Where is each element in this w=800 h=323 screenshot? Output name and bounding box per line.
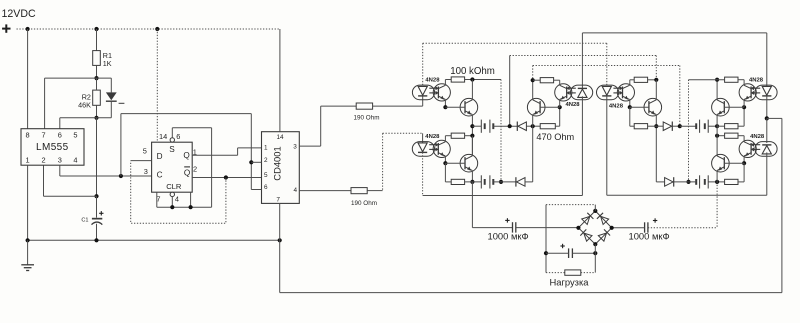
wire CD4001 pin3 stub <box>299 145 320 147</box>
wire Q2 base lead <box>540 106 560 108</box>
resistor R16 load <box>565 270 581 275</box>
wire GB2 to D3 <box>493 181 516 183</box>
junction Q5 emitter node <box>715 124 719 128</box>
junction Q1 base node <box>443 105 447 109</box>
wire U9 collector riser <box>743 80 745 86</box>
pin 6 label <box>58 130 62 139</box>
wire R4 riser <box>382 133 384 190</box>
svg-text:4: 4 <box>73 155 77 164</box>
transistor Q4 <box>644 98 662 116</box>
junction clr junction pin4 <box>170 205 174 209</box>
wire ground rail <box>28 239 280 241</box>
wire Q1 collector lead <box>471 80 473 100</box>
label 4N28 U8 <box>609 103 624 109</box>
wire LM555 pin6 to R2/D1 <box>60 117 112 119</box>
junction bridge left node <box>576 226 580 230</box>
svg-text:5: 5 <box>73 130 77 139</box>
wire R11 to D4 <box>648 125 664 127</box>
wire Q3 collector lead <box>471 136 473 156</box>
label 4N28 U5 <box>425 134 440 140</box>
wire FF D input <box>131 160 152 162</box>
junction bridge bottom node <box>593 242 597 246</box>
junction mid row node B <box>678 124 682 128</box>
wire Q6 emitter lead <box>716 171 718 182</box>
wire U8 emitter drop <box>629 100 631 108</box>
junction R8 node <box>470 134 474 138</box>
wire Q3 base res link <box>445 181 451 183</box>
battery GB1 <box>481 120 493 133</box>
svg-text:5: 5 <box>264 172 268 179</box>
wire D4 to node B <box>672 125 680 127</box>
svg-text:8: 8 <box>26 130 30 139</box>
svg-text:LM555: LM555 <box>36 142 69 153</box>
pin 1 label FF <box>193 148 197 157</box>
label LM555 <box>36 142 69 153</box>
svg-text:5: 5 <box>143 147 147 156</box>
wire Q5 collector lead <box>716 80 718 100</box>
resistor R4 190 Ohm <box>351 188 367 194</box>
resistor R8 100k <box>451 133 464 138</box>
battery GB4 <box>696 175 708 188</box>
wire LM555 pin2 link <box>44 195 97 197</box>
label CD4001 <box>272 146 283 180</box>
wire clock riser <box>120 114 122 176</box>
wire CD4001 pin7 to ground rail <box>279 203 281 240</box>
svg-text:7: 7 <box>41 130 45 139</box>
wire Q6 base drop <box>743 163 745 182</box>
svg-text:Q: Q <box>183 151 189 160</box>
wire U9 emitter drop <box>743 100 745 108</box>
wire CD4001 pin14 supply <box>279 29 281 132</box>
resistor R3 190 Ohm <box>356 103 372 109</box>
wire LED chain top outer <box>582 32 766 34</box>
wire R13 left link <box>689 79 725 81</box>
pin 1 label <box>26 155 30 164</box>
flip-flop U2 body <box>152 142 193 192</box>
optocoupler U6 <box>555 84 593 101</box>
pin 1 label CD4001 <box>264 145 268 152</box>
junction mid row node A <box>508 124 512 128</box>
diode D3 <box>516 177 525 186</box>
svg-text:3: 3 <box>58 155 62 164</box>
wire load bottom left <box>546 272 565 274</box>
wire CD4001 pin4 stub <box>299 190 351 192</box>
pin 3 label <box>58 155 62 164</box>
junction R14 node <box>715 134 719 138</box>
junction load cap left node <box>544 251 548 255</box>
bridge diode D7 <box>597 213 609 225</box>
wire FF pin6 top link <box>172 127 211 129</box>
label R2 value 46K <box>78 101 91 110</box>
diode D4 <box>663 122 672 131</box>
wire U6 LED cathode riser <box>581 33 583 89</box>
wire U6 LED anode drop <box>581 96 583 195</box>
FF clear bubble <box>170 192 174 196</box>
wire right LED return <box>607 194 767 196</box>
label 4N28 U9 <box>749 77 764 83</box>
wire U9 LED cathode drop <box>766 96 768 119</box>
wire C1 top lead <box>96 196 98 217</box>
wire pin3 riser <box>320 106 322 146</box>
wire Q jog riser <box>237 148 239 155</box>
bridge diode D8 <box>580 229 592 241</box>
wire C2 to bridge left <box>516 227 579 229</box>
wire drive cross link A <box>510 55 657 57</box>
FF set bubble <box>170 138 174 142</box>
wire D5 to Q4 column <box>656 181 664 183</box>
svg-text:3: 3 <box>293 143 297 150</box>
svg-text:190 Ohm: 190 Ohm <box>354 115 380 122</box>
junction ground rail right <box>278 238 282 242</box>
wire bridge bottom drop <box>594 244 596 272</box>
resistor R10 100k <box>634 77 647 82</box>
wire R2 bottom lead <box>96 105 98 118</box>
svg-text:6: 6 <box>176 132 180 141</box>
svg-text:4N28: 4N28 <box>425 134 440 140</box>
junction Q6 base node <box>742 161 746 165</box>
label C4 plus <box>560 244 564 248</box>
transistor Q2 <box>527 98 545 116</box>
label load <box>549 276 589 287</box>
power + terminal <box>2 24 10 32</box>
junction clock branch junction <box>119 174 123 178</box>
resistor R14 100k <box>725 133 738 138</box>
junction Q2 collector node <box>531 78 535 82</box>
wire R2 top lead <box>96 78 98 90</box>
wire bridge top stub <box>594 205 596 211</box>
wire cap left lead <box>546 252 569 254</box>
wire Q2 coll to R7 <box>533 79 541 81</box>
wire U5 emitter drop <box>444 156 446 163</box>
svg-text:100 kOhm: 100 kOhm <box>450 66 495 77</box>
wire Q4 emitter lead <box>655 115 657 182</box>
wire R4 lead <box>367 190 382 192</box>
optocoupler U8 <box>597 84 635 101</box>
svg-text:46K: 46K <box>78 101 91 110</box>
transistor Q3 <box>460 154 478 172</box>
wire U6 collector riser <box>559 80 561 85</box>
junction bridge top node <box>593 209 597 213</box>
wire Q1 base lead <box>445 106 465 108</box>
svg-text:1000 мкФ: 1000 мкФ <box>629 231 670 242</box>
pin 14 label FF <box>159 132 167 141</box>
pin 2 label CD4001 <box>264 157 268 164</box>
junction load cap right node <box>593 251 597 255</box>
wire Q5 emitter to R12 <box>717 125 725 127</box>
wire cap right lead <box>572 252 595 254</box>
junction Q5 collector node <box>715 78 719 82</box>
resistor R2 <box>93 90 101 105</box>
pin 3 label FF <box>144 167 148 176</box>
svg-text:1K: 1K <box>103 59 112 68</box>
pin 4 label <box>73 155 77 164</box>
label C <box>157 171 163 180</box>
junction LED chain tap <box>765 116 769 120</box>
wire LED chain jog <box>767 117 782 119</box>
label R4 190 Ohm <box>351 200 377 207</box>
wire U5 LED anode drop <box>422 133 424 143</box>
label R1 value 1K <box>103 59 112 68</box>
node 12VDC supply label <box>2 8 36 20</box>
svg-text:4N28: 4N28 <box>609 103 624 109</box>
wire D2 to Q2 node <box>526 125 540 127</box>
wire U8 LED anode riser <box>606 43 608 86</box>
svg-text:3: 3 <box>144 167 148 176</box>
wire Q3 base lead <box>445 162 465 164</box>
wire CD4001 pin6 stub <box>251 189 261 191</box>
svg-text:7: 7 <box>276 197 280 204</box>
pin 3 label CD4001 <box>293 143 297 150</box>
label S <box>169 145 175 154</box>
wire LED return right side <box>781 118 783 292</box>
svg-text:6: 6 <box>58 130 62 139</box>
resistor R11 <box>634 124 647 129</box>
pin 6 label FF <box>176 132 180 141</box>
wire FF pin6 riser <box>171 128 173 138</box>
pin 2 label <box>41 155 45 164</box>
wire Q1 emitter lead <box>471 115 473 156</box>
junction pin2 junction <box>249 160 253 164</box>
wire right bridge feed <box>648 227 717 229</box>
wire load left column <box>545 205 547 273</box>
wire cross link A right drop <box>655 56 657 80</box>
wire LM555 pin3 drop <box>59 165 61 176</box>
wire R5 drop column <box>500 80 502 182</box>
wire Q3 base drop <box>444 163 446 182</box>
svg-text:6: 6 <box>264 184 268 191</box>
wire U6 emitter drop <box>559 100 561 108</box>
wire U9 LED anode riser <box>766 33 768 87</box>
pin 4 label FF <box>175 195 179 204</box>
wire R7 to U6 collector <box>554 79 560 81</box>
diode D5 <box>665 177 674 186</box>
junction ground rail C1 <box>94 238 98 242</box>
svg-text:4N28: 4N28 <box>425 77 440 83</box>
pin 2 label FF <box>193 165 197 174</box>
junction ground rail left <box>26 238 30 242</box>
junction notQ feedback junction <box>224 175 228 179</box>
optocoupler U10 <box>739 140 777 157</box>
junction R5 column foot <box>499 180 503 184</box>
transistor Q5 <box>712 98 730 116</box>
svg-text:2: 2 <box>264 157 268 164</box>
junction rail to LM555 pin8 <box>26 27 30 31</box>
wire U8 coll to R10 <box>630 79 634 81</box>
junction Q2 emitter node <box>531 124 535 128</box>
optocoupler U5 <box>412 140 450 157</box>
wire U4 LED anode riser <box>422 43 424 86</box>
wire ground return bottom <box>280 292 782 294</box>
logic IC U3 CD4001 body <box>262 132 300 204</box>
svg-text:CLR: CLR <box>166 182 182 191</box>
wire R1 top lead <box>96 29 98 51</box>
capacitor C2 1000uF <box>513 222 516 232</box>
wire LM555 pin6 riser <box>59 118 61 129</box>
wire diode D1 cathode lead <box>110 101 112 118</box>
capacitor C1 <box>92 218 103 225</box>
wire U4 collector riser <box>444 80 446 86</box>
capacitor C4 <box>569 248 573 258</box>
label C1 <box>81 218 88 224</box>
wire R6 riser <box>559 107 561 126</box>
wire U5 coll to R8 <box>445 135 451 137</box>
wire Q1 emitter to GB1 <box>472 125 481 127</box>
wire R13 to U9 collector <box>738 79 744 81</box>
diode D2 <box>517 122 526 131</box>
pin 5 label <box>73 130 77 139</box>
junction Q4 collector node <box>654 78 658 82</box>
wire U10 LED anode riser <box>766 118 768 143</box>
svg-text:Q: Q <box>184 169 190 178</box>
capacitor C3 1000uF <box>645 222 648 232</box>
label C3 plus <box>653 218 657 222</box>
pin 8 label <box>26 130 30 139</box>
wire Q4 base lead <box>630 106 649 108</box>
junction Q1 emitter node <box>470 124 474 128</box>
wire Q4 base res link <box>630 125 634 127</box>
resistor R12 <box>725 124 738 129</box>
svg-text:12VDC: 12VDC <box>2 8 36 20</box>
wire FF corner pin stub <box>190 192 192 207</box>
wire LED chain top inner <box>423 42 607 44</box>
svg-text:C1: C1 <box>81 218 88 224</box>
label 4N28 U4 <box>425 77 440 83</box>
junction Q6 emitter node <box>715 180 719 184</box>
wire GB1 to D2 <box>493 125 517 127</box>
wire drive cross link B <box>533 65 680 67</box>
junction Q5 base node <box>742 105 746 109</box>
transistor Q6 <box>712 154 730 172</box>
junction bridge right node <box>610 226 614 230</box>
label C2 plus <box>505 218 509 222</box>
transistor Q1 <box>460 98 478 116</box>
label C3 1000 uF <box>629 231 670 242</box>
wire left bridge feed <box>472 227 512 229</box>
wire FF pin7 drop <box>156 192 158 207</box>
wire LM555 pin8 supply <box>27 29 29 129</box>
svg-text:1: 1 <box>26 155 30 164</box>
junction R1/R2 junction <box>94 76 98 80</box>
svg-text:2: 2 <box>193 165 197 174</box>
wire Q5 base lead <box>724 106 744 108</box>
wire ground return drop <box>279 240 281 292</box>
junction Q3 base node <box>443 161 447 165</box>
pin 7 label CD4001 <box>276 197 280 204</box>
wire R12 lead <box>738 125 744 127</box>
wire R5 to Q1 collector <box>465 79 501 81</box>
svg-text:190 Ohm: 190 Ohm <box>351 200 377 207</box>
wire FF Q output <box>192 154 237 156</box>
junction Q4 base node <box>628 105 632 109</box>
pin 14 label CD4001 <box>276 134 284 141</box>
svg-text:470 Ohm: 470 Ohm <box>536 132 574 142</box>
label 4N28 U6 <box>566 102 581 108</box>
wire U10 collector riser <box>743 136 745 142</box>
wire Q6 base res link <box>738 181 744 183</box>
diode D1 <box>106 92 125 103</box>
bridge diode D6 <box>582 213 594 225</box>
wire bridge right to C3 <box>612 227 645 229</box>
label D <box>157 152 163 161</box>
wire U8 LED cathode drop <box>606 96 608 195</box>
ground <box>21 240 34 270</box>
pin 7 label <box>41 130 45 139</box>
wire Q4 collector lead <box>655 80 657 100</box>
wire FF clr link <box>157 206 212 208</box>
wire notQ to D feedback <box>131 161 226 224</box>
label R1 <box>103 51 112 60</box>
label CLR <box>166 182 182 191</box>
label C1 plus <box>99 211 103 215</box>
label notQ <box>184 167 190 178</box>
junction rail to FF pin14 <box>155 27 159 31</box>
svg-text:1000 мкФ: 1000 мкФ <box>488 231 529 242</box>
svg-text:CD4001: CD4001 <box>272 146 283 180</box>
bridge diode D9 <box>598 229 610 241</box>
resistor R5 100k <box>451 77 464 82</box>
wire R13 column drop <box>688 80 690 182</box>
wire LM555 pin2 drop <box>43 165 45 196</box>
wire clock top link <box>121 113 251 115</box>
wire Q to CD4001 pin1 <box>238 147 262 149</box>
wire Q6 base lead <box>724 162 744 164</box>
junction Q1 collector node <box>470 77 474 81</box>
pin 5 label CD4001 <box>264 172 268 179</box>
wire U10 coll to R14 <box>738 135 744 137</box>
bridge rectifier frame <box>578 211 611 244</box>
optocoupler U9 <box>739 84 777 101</box>
wire FF pin6 to clr column <box>211 128 213 207</box>
wire U10 LED cathode drop <box>766 152 768 195</box>
wire Q2 collector upper <box>532 66 534 81</box>
label R3 190 Ohm <box>354 115 380 122</box>
wire R10 to Q4 collector <box>648 79 657 81</box>
wire R3 to opto U4 LED <box>373 105 423 107</box>
battery GB2 <box>481 175 493 188</box>
svg-text:S: S <box>169 145 175 154</box>
wire LM555 pin7 riser <box>44 78 46 129</box>
wire GB4 to D5 <box>674 181 697 183</box>
svg-text:4: 4 <box>294 187 298 194</box>
svg-text:4: 4 <box>175 195 179 204</box>
wire U10 emitter drop <box>743 156 745 163</box>
wire CD4001 pin2/6 column <box>250 114 252 190</box>
junction clr junction corner <box>189 205 193 209</box>
label C2 1000 uF <box>488 231 529 242</box>
svg-text:2: 2 <box>41 155 45 164</box>
wire FF pin4 stub <box>171 197 173 208</box>
optocoupler U4 <box>412 84 450 101</box>
wire R8 to column <box>465 135 473 137</box>
wire U5 collector riser <box>444 136 446 142</box>
svg-text:14: 14 <box>276 134 284 141</box>
junction Q4 emitter node <box>654 124 658 128</box>
wire R14 to column <box>717 135 725 137</box>
wire R6 to U6 node <box>555 125 559 127</box>
battery GB3 <box>696 120 708 133</box>
wire R1 bottom lead <box>96 65 98 78</box>
wire Q2 collector lead <box>532 80 534 100</box>
wire U4 emitter drop <box>444 100 446 108</box>
label Q <box>183 151 189 160</box>
wire threshold column <box>96 118 98 196</box>
wire cross link A left drop <box>509 56 511 127</box>
wire left output column <box>471 182 473 228</box>
svg-text:14: 14 <box>159 132 167 141</box>
wire U4 LED cathode drop <box>422 96 424 106</box>
junction LM555 pin2 junction <box>94 194 98 198</box>
wire +12V top rail <box>17 28 280 30</box>
